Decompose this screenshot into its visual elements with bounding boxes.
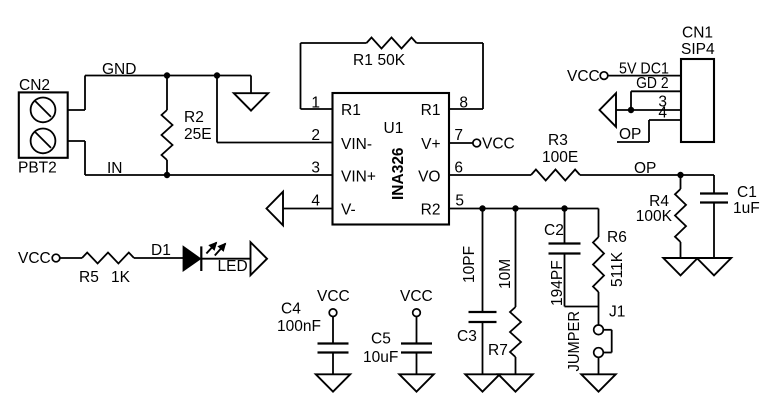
- svg-text:OP: OP: [634, 160, 656, 177]
- svg-text:VCC: VCC: [18, 250, 51, 267]
- svg-text:50K: 50K: [378, 52, 406, 69]
- svg-text:4: 4: [658, 105, 667, 122]
- svg-text:100nF: 100nF: [277, 318, 321, 335]
- svg-text:10uF: 10uF: [363, 349, 398, 366]
- svg-text:R2: R2: [184, 109, 204, 126]
- svg-text:V-: V-: [341, 202, 356, 219]
- svg-text:6: 6: [454, 160, 463, 177]
- svg-text:10PF: 10PF: [461, 246, 478, 283]
- svg-text:IN: IN: [107, 160, 123, 177]
- svg-text:JUMPER: JUMPER: [566, 311, 583, 372]
- svg-text:SIP4: SIP4: [681, 41, 715, 58]
- svg-text:100E: 100E: [542, 149, 578, 166]
- svg-text:R1: R1: [353, 52, 373, 69]
- svg-text:C1: C1: [737, 184, 757, 201]
- svg-text:J1: J1: [609, 304, 625, 321]
- svg-text:VIN+: VIN+: [341, 169, 376, 186]
- svg-text:2: 2: [311, 127, 320, 144]
- svg-text:GND: GND: [102, 61, 136, 78]
- svg-text:3: 3: [311, 160, 320, 177]
- svg-text:LED: LED: [218, 258, 248, 275]
- svg-text:VIN-: VIN-: [341, 136, 372, 153]
- svg-text:10M: 10M: [497, 259, 514, 289]
- svg-text:VCC: VCC: [317, 288, 350, 305]
- svg-text:R3: R3: [548, 132, 568, 149]
- svg-text:100K: 100K: [636, 208, 673, 225]
- svg-text:D1: D1: [151, 242, 171, 259]
- svg-text:R1: R1: [421, 102, 441, 119]
- svg-text:25E: 25E: [184, 126, 212, 143]
- svg-text:VCC: VCC: [482, 136, 515, 153]
- svg-text:R2: R2: [421, 202, 441, 219]
- svg-text:4: 4: [311, 193, 320, 210]
- svg-text:U1: U1: [384, 120, 404, 137]
- svg-text:194PF: 194PF: [549, 260, 566, 306]
- svg-text:R7: R7: [488, 342, 508, 359]
- svg-text:R6: R6: [607, 229, 627, 246]
- svg-text:1K: 1K: [111, 269, 131, 286]
- svg-text:CN2: CN2: [19, 77, 50, 94]
- svg-text:511K: 511K: [609, 251, 626, 287]
- svg-text:5: 5: [455, 193, 464, 210]
- svg-text:OP: OP: [619, 126, 641, 143]
- svg-text:INA326: INA326: [390, 147, 407, 200]
- svg-text:C4: C4: [281, 301, 301, 318]
- svg-text:C2: C2: [544, 222, 564, 239]
- svg-text:C3: C3: [457, 328, 477, 345]
- svg-text:VCC: VCC: [400, 288, 433, 305]
- svg-text:C5: C5: [371, 331, 391, 348]
- svg-text:VCC: VCC: [567, 68, 600, 85]
- svg-text:R1: R1: [341, 102, 361, 119]
- svg-text:7: 7: [454, 127, 463, 144]
- svg-text:VO: VO: [418, 169, 440, 186]
- svg-text:GD 2: GD 2: [636, 75, 669, 92]
- svg-text:CN1: CN1: [682, 25, 713, 42]
- svg-text:PBT2: PBT2: [18, 160, 57, 177]
- svg-text:1uF: 1uF: [733, 200, 760, 217]
- svg-text:V+: V+: [421, 136, 440, 153]
- svg-text:R5: R5: [79, 269, 99, 286]
